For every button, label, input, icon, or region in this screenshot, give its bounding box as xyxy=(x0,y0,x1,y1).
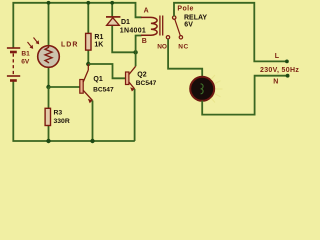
relay NO contact xyxy=(166,36,169,39)
node: top rail D1 junction xyxy=(110,1,114,5)
svg-text:D1: D1 xyxy=(121,19,130,26)
node: R3 bottom rail junction xyxy=(46,139,50,143)
svg-text:L: L xyxy=(275,53,280,60)
wire: lamp bottom to N terminal xyxy=(202,76,286,115)
node: N terminal xyxy=(286,74,290,78)
svg-text:R1: R1 xyxy=(94,34,103,41)
node X: R1/Q1 collector/Q2 base junction xyxy=(86,62,90,66)
wire: NO contact down to lamp xyxy=(168,39,202,77)
wire: Q2 emitter to bottom rail xyxy=(134,89,136,141)
node: Q1 emitter bottom rail junction xyxy=(90,139,94,143)
wire: pole stub xyxy=(173,10,175,16)
wire: LDR bottom to base node xyxy=(48,67,50,87)
node B: D1/coil/Q2 collector junction xyxy=(133,50,137,54)
diode D1 xyxy=(106,17,120,25)
svg-text:B1: B1 xyxy=(21,51,30,58)
wire: B node up to coil bottom xyxy=(136,36,142,53)
svg-text:1N4001: 1N4001 xyxy=(120,28,146,35)
wire: battery negative to bottom rail xyxy=(13,81,135,142)
wire: base node down to R3 xyxy=(48,87,50,141)
svg-text:R3: R3 xyxy=(54,110,63,117)
battery B1 xyxy=(7,48,20,81)
transistor Q2 xyxy=(126,66,136,91)
wire: Q1 emitter to bottom rail xyxy=(92,101,94,142)
LDR light arrow 2 xyxy=(34,38,40,45)
resistor R1 xyxy=(86,33,91,50)
LDR xyxy=(38,46,60,68)
svg-text:Q2: Q2 xyxy=(137,72,146,79)
wire: base node to Q1 base xyxy=(49,86,80,88)
svg-text:NO: NO xyxy=(157,43,167,50)
transistor Q1 xyxy=(80,64,93,103)
resistor R3 xyxy=(45,108,50,125)
svg-text:RELAY: RELAY xyxy=(184,14,207,21)
node: base junction dot xyxy=(46,85,50,89)
wire: node X to Q2 base xyxy=(88,64,125,78)
svg-text:N: N xyxy=(273,79,278,86)
relay NC contact xyxy=(179,36,182,39)
svg-text:LDR: LDR xyxy=(61,42,78,49)
wire: LDR branch from top rail xyxy=(48,3,50,46)
lamp xyxy=(190,75,222,103)
LDR light arrow 1 xyxy=(28,42,34,49)
wire: battery + top rail to coil A drop xyxy=(13,3,141,48)
node: top rail R1 junction xyxy=(86,1,90,5)
svg-text:230V, 50Hz: 230V, 50Hz xyxy=(260,67,299,74)
svg-text:6V: 6V xyxy=(184,22,193,29)
svg-text:330R: 330R xyxy=(54,118,70,125)
wire: Q2 collector up to B node xyxy=(135,52,137,66)
node: L terminal xyxy=(285,60,289,64)
svg-text:Q1: Q1 xyxy=(93,76,102,83)
svg-text:B: B xyxy=(142,38,147,45)
svg-text:Pole: Pole xyxy=(177,6,193,13)
svg-text:BC547: BC547 xyxy=(93,87,114,94)
svg-text:BC547: BC547 xyxy=(136,80,157,87)
wire: D1 branch from top rail down to B node xyxy=(112,3,135,53)
node: top rail LDR junction xyxy=(47,1,51,5)
relay switch arm xyxy=(175,19,181,35)
wire: R1 branch from top rail xyxy=(87,3,89,64)
svg-text:NC: NC xyxy=(178,43,189,50)
svg-text:6V: 6V xyxy=(21,58,30,65)
wire: pole up and across to L terminal xyxy=(174,3,286,62)
svg-text:A: A xyxy=(144,8,149,15)
svg-text:1K: 1K xyxy=(94,41,103,48)
relay pole contact xyxy=(173,16,176,19)
relay coil xyxy=(141,16,163,36)
